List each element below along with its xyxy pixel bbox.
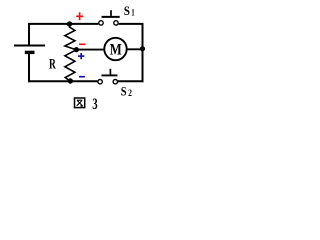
svg-text:S: S: [124, 3, 130, 18]
svg-text:2: 2: [128, 88, 132, 98]
svg-text:1: 1: [131, 7, 135, 17]
svg-text:3: 3: [92, 94, 97, 113]
svg-text:M: M: [110, 41, 122, 58]
svg-text:R: R: [49, 57, 56, 73]
svg-text:S: S: [121, 84, 127, 99]
